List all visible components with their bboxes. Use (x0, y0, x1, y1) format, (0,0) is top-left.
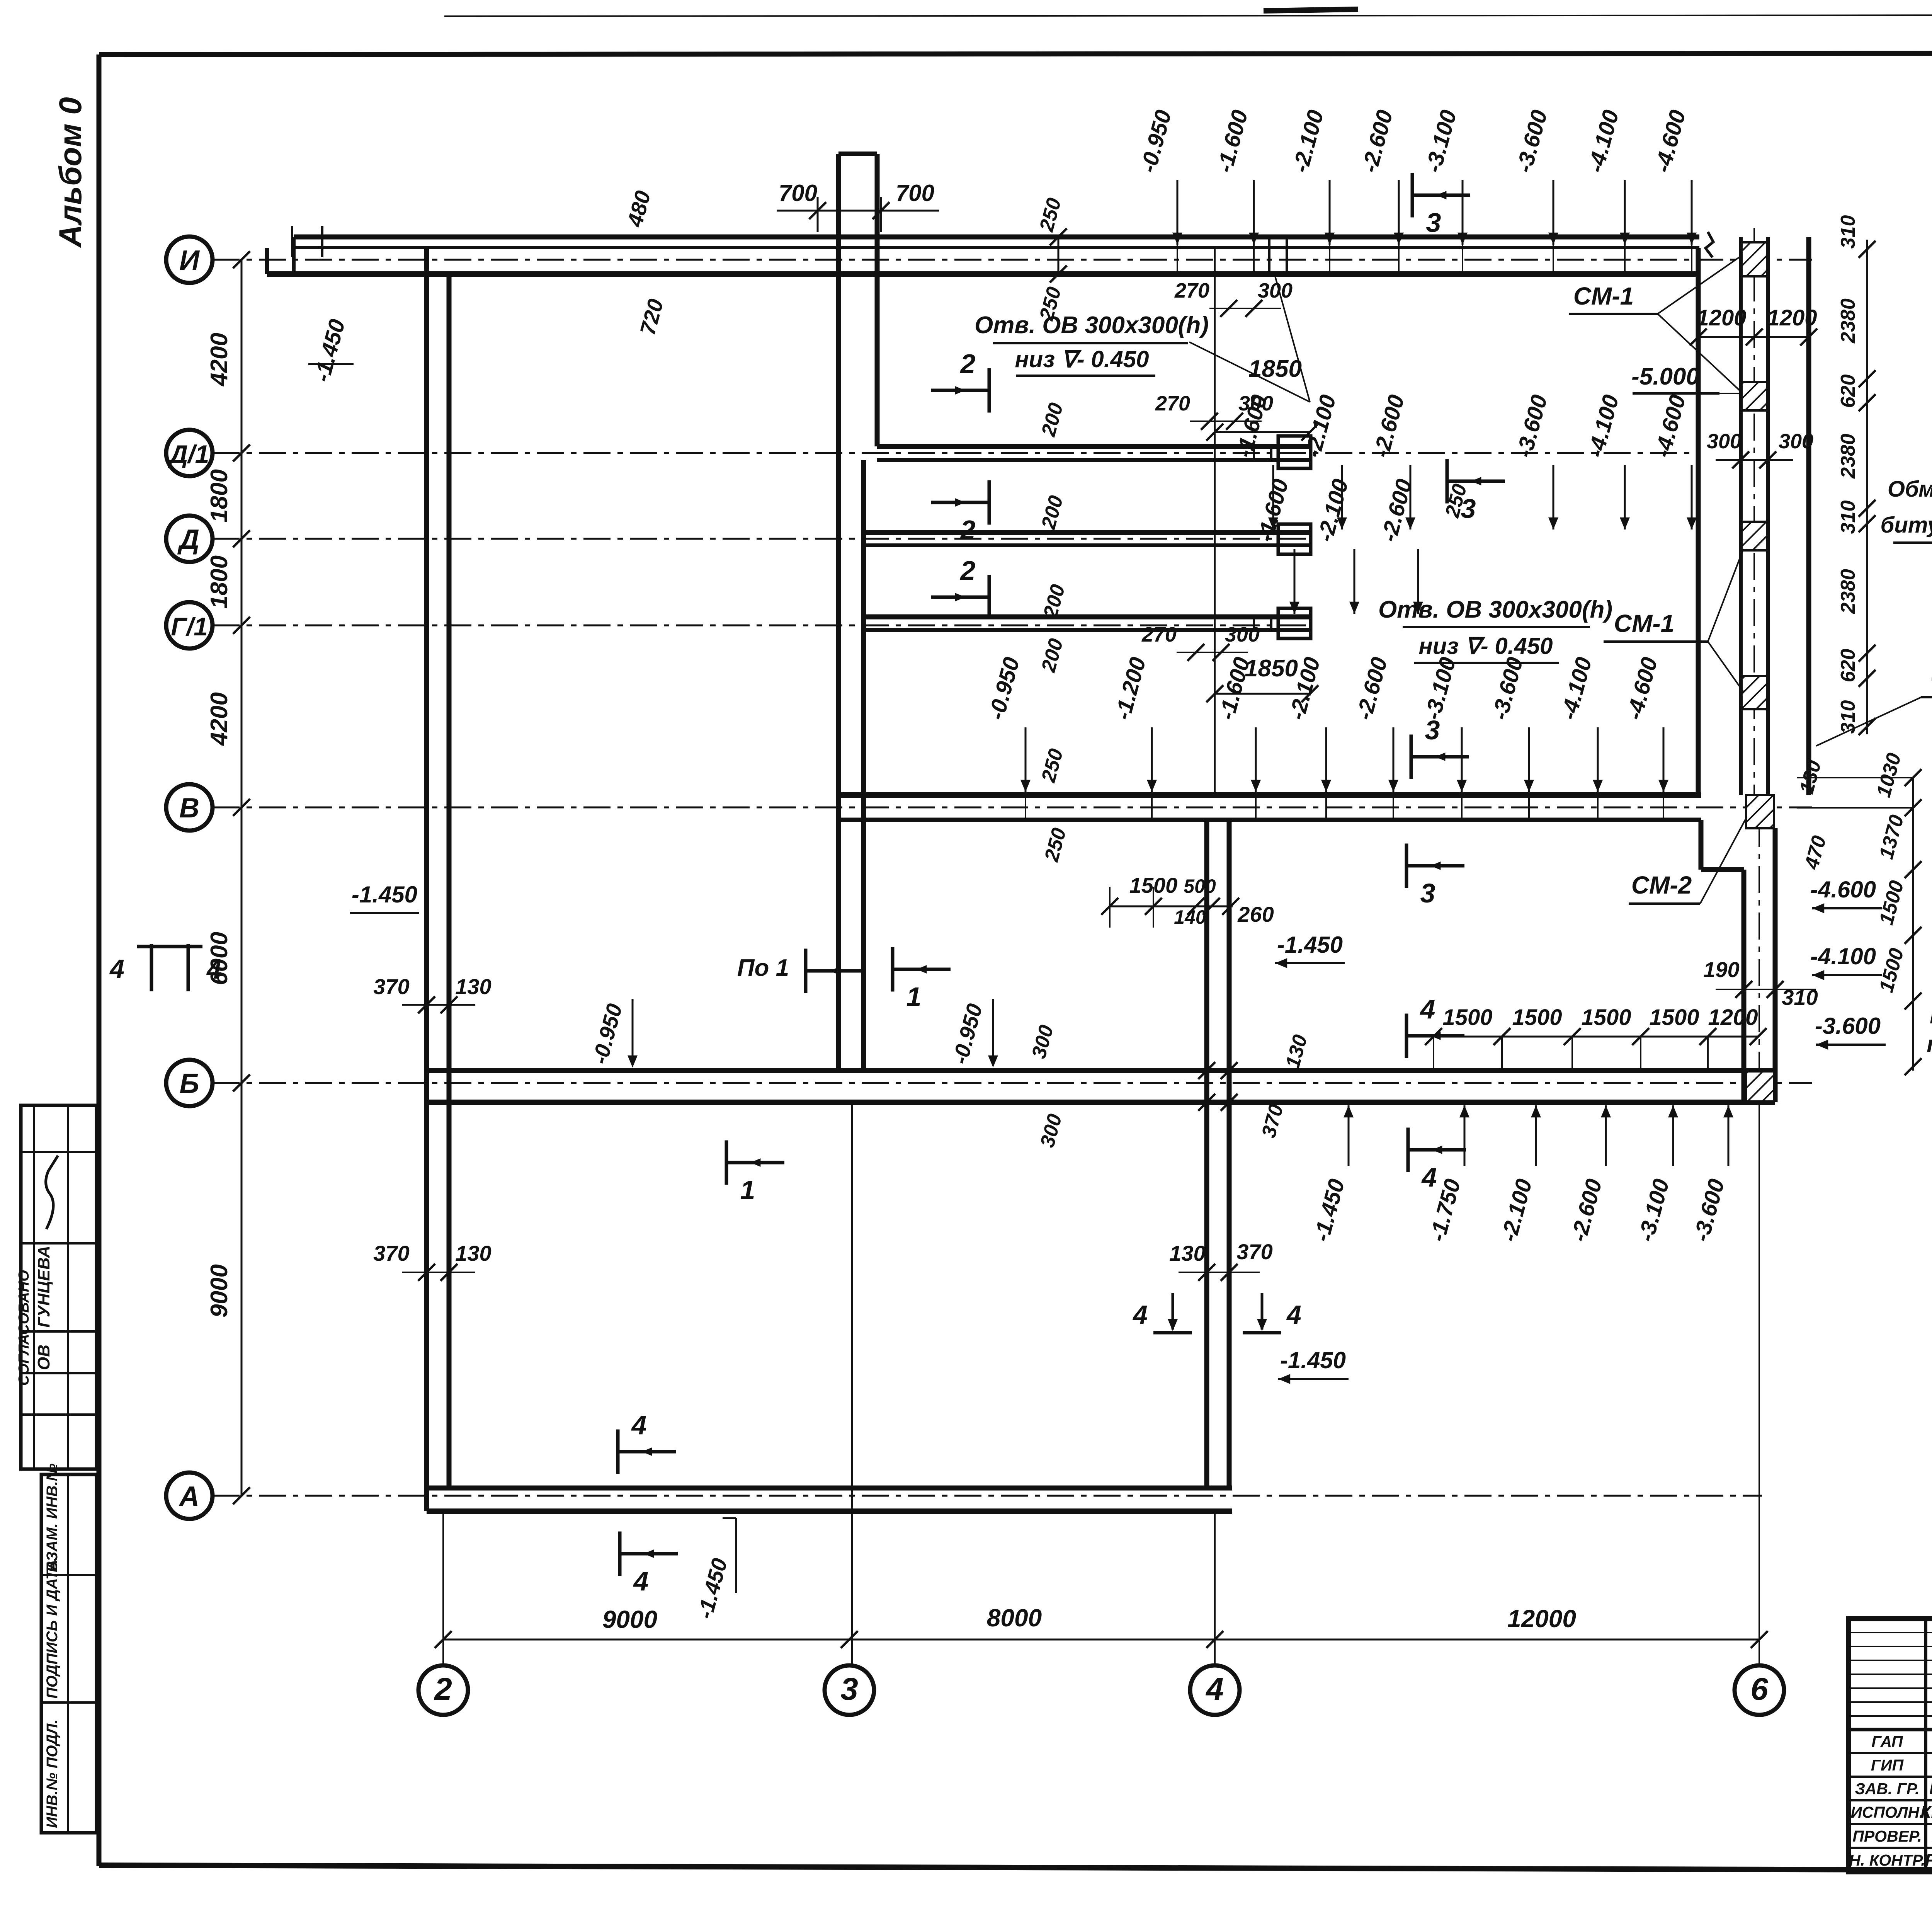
svg-text:9000: 9000 (206, 1264, 233, 1318)
svg-text:260: 260 (1237, 902, 1274, 926)
svg-text:ВЗАМ. ИНВ.№: ВЗАМ. ИНВ.№ (44, 1463, 61, 1572)
svg-text:МОРОЗОВА: МОРОЗОВА (1929, 1779, 1932, 1798)
svg-text:СОГЛАСОВАНО: СОГЛАСОВАНО (16, 1270, 32, 1386)
svg-text:-5.000: -5.000 (1631, 363, 1699, 390)
svg-text:ГУНЦЕВА: ГУНЦЕВА (34, 1246, 53, 1328)
svg-text:А: А (179, 1481, 199, 1512)
svg-text:И: И (179, 245, 200, 276)
svg-text:-1.450: -1.450 (1280, 1347, 1346, 1373)
svg-text:РОНДАРЕВА: РОНДАРЕВА (1925, 1851, 1932, 1869)
svg-text:низ ∇- 0.450: низ ∇- 0.450 (1418, 633, 1553, 659)
svg-text:ГИП: ГИП (1871, 1756, 1904, 1774)
svg-text:ИСПОЛН.: ИСПОЛН. (1850, 1803, 1923, 1821)
svg-text:СМ-1: СМ-1 (1573, 282, 1634, 310)
svg-text:СМ-1: СМ-1 (1614, 609, 1674, 637)
svg-text:3: 3 (1420, 878, 1435, 908)
svg-text:2380: 2380 (1837, 298, 1859, 344)
svg-text:ОВ: ОВ (34, 1345, 53, 1370)
svg-text:700: 700 (779, 180, 817, 206)
svg-text:ПРОВЕР.: ПРОВЕР. (1852, 1827, 1922, 1845)
svg-text:4: 4 (1132, 1300, 1148, 1330)
svg-text:4: 4 (633, 1566, 649, 1596)
svg-text:190: 190 (1703, 957, 1739, 982)
svg-text:310: 310 (1837, 700, 1859, 734)
svg-text:370: 370 (373, 974, 409, 999)
svg-text:1200: 1200 (1696, 305, 1746, 330)
svg-text:СМ-2: СМ-2 (1631, 871, 1692, 899)
svg-text:Г/1: Г/1 (171, 612, 208, 641)
svg-text:2380: 2380 (1837, 434, 1859, 479)
svg-text:4: 4 (631, 1410, 647, 1440)
svg-text:ЗАВ. ГР.: ЗАВ. ГР. (1855, 1780, 1919, 1798)
svg-text:2380: 2380 (1837, 569, 1859, 614)
svg-text:1500: 1500 (1581, 1005, 1631, 1030)
svg-text:620: 620 (1837, 649, 1859, 683)
svg-text:3: 3 (1425, 715, 1440, 745)
svg-text:9000: 9000 (602, 1605, 657, 1633)
svg-text:ИНВ.№ ПОДЛ.: ИНВ.№ ПОДЛ. (44, 1720, 61, 1828)
svg-text:КИРИЕНКОВА: КИРИЕНКОВА (1920, 1803, 1932, 1822)
svg-text:12000: 12000 (1507, 1605, 1576, 1633)
svg-text:4: 4 (109, 954, 124, 984)
svg-text:1500: 1500 (1512, 1005, 1562, 1030)
svg-text:подготовка: подготовка (1927, 1031, 1932, 1057)
svg-text:130: 130 (1169, 1241, 1205, 1265)
svg-text:1800: 1800 (206, 469, 233, 523)
svg-text:300: 300 (1225, 623, 1260, 646)
svg-text:-1.450: -1.450 (352, 882, 417, 907)
svg-text:1500: 1500 (1442, 1005, 1492, 1030)
svg-text:Д/1: Д/1 (168, 440, 209, 468)
svg-text:140: 140 (1174, 906, 1206, 928)
svg-text:низ ∇- 0.450: низ ∇- 0.450 (1015, 346, 1149, 372)
svg-text:2: 2 (960, 515, 976, 545)
svg-text:битумом за 2 раза: битумом за 2 раза (1881, 512, 1932, 538)
svg-text:2: 2 (434, 1672, 452, 1707)
svg-text:-3.600: -3.600 (1815, 1013, 1881, 1039)
svg-text:4200: 4200 (206, 692, 233, 746)
svg-text:ПОДПИСЬ И ДАТА: ПОДПИСЬ И ДАТА (44, 1559, 61, 1699)
svg-text:-4.100: -4.100 (1810, 943, 1876, 969)
svg-text:-4.600: -4.600 (1810, 877, 1876, 902)
svg-text:По 1: По 1 (737, 955, 789, 981)
svg-text:620: 620 (1837, 375, 1859, 408)
svg-text:310: 310 (1837, 215, 1859, 249)
svg-text:4: 4 (1420, 994, 1435, 1024)
svg-text:Песчаная: Песчаная (1930, 1003, 1932, 1028)
svg-text:310: 310 (1837, 501, 1859, 534)
svg-text:500: 500 (1184, 875, 1216, 897)
svg-text:Б: Б (180, 1068, 199, 1099)
svg-text:Отв. ОВ 300х300(h): Отв. ОВ 300х300(h) (975, 312, 1209, 339)
svg-text:130: 130 (455, 974, 491, 999)
svg-text:8000: 8000 (987, 1604, 1042, 1632)
svg-text:4: 4 (1421, 1162, 1437, 1192)
svg-text:1800: 1800 (206, 555, 233, 609)
svg-text:270: 270 (1155, 392, 1190, 415)
svg-text:Н. КОНТР.: Н. КОНТР. (1849, 1851, 1925, 1869)
svg-text:1200: 1200 (1708, 1005, 1758, 1030)
svg-text:300: 300 (1707, 430, 1742, 453)
svg-text:2: 2 (960, 349, 976, 379)
svg-text:6: 6 (1750, 1672, 1769, 1707)
svg-text:300: 300 (1258, 279, 1293, 302)
svg-text:370: 370 (1236, 1239, 1272, 1264)
svg-text:Д: Д (177, 524, 199, 555)
svg-text:1500: 1500 (1649, 1005, 1699, 1030)
svg-text:4: 4 (206, 955, 221, 984)
svg-text:Обмазка горячим: Обмазка горячим (1888, 477, 1932, 502)
svg-text:ГАП: ГАП (1871, 1733, 1903, 1750)
svg-text:700: 700 (896, 180, 934, 206)
svg-text:3: 3 (1426, 208, 1441, 238)
svg-text:3: 3 (840, 1672, 858, 1707)
svg-text:-1.450: -1.450 (1277, 932, 1343, 958)
svg-text:1: 1 (906, 982, 922, 1012)
svg-text:1200: 1200 (1767, 305, 1817, 330)
svg-text:1850: 1850 (1248, 356, 1302, 382)
svg-text:4: 4 (1205, 1672, 1224, 1707)
svg-text:Альбом 0: Альбом 0 (53, 97, 88, 248)
svg-text:Отв. ОВ 300х300(h): Отв. ОВ 300х300(h) (1378, 596, 1612, 623)
svg-text:370: 370 (373, 1241, 409, 1265)
svg-text:270: 270 (1141, 623, 1177, 646)
svg-text:270: 270 (1174, 279, 1209, 302)
svg-text:4200: 4200 (206, 333, 233, 387)
svg-text:130: 130 (455, 1241, 491, 1265)
svg-text:4: 4 (1286, 1300, 1301, 1330)
svg-text:300: 300 (1779, 430, 1813, 453)
svg-text:В: В (179, 793, 199, 824)
svg-text:1: 1 (740, 1175, 755, 1205)
svg-text:2: 2 (960, 555, 976, 586)
